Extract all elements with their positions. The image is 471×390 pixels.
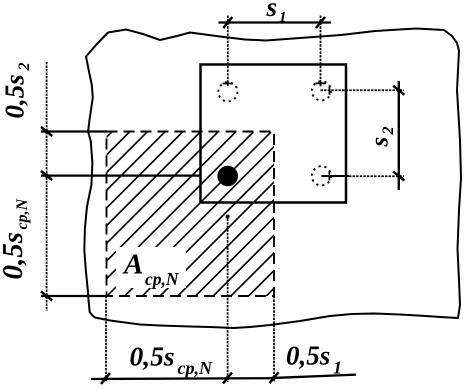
svg-text:2: 2 [16,63,33,72]
svg-text:0,5s: 0,5s [0,232,29,280]
svg-text:0,5s: 0,5s [286,341,330,371]
svg-text:0,5s: 0,5s [0,74,30,118]
svg-text:2: 2 [380,127,397,136]
svg-text:cp,N: cp,N [178,358,213,378]
svg-text:1: 1 [279,10,287,26]
svg-text:0,5s: 0,5s [130,341,175,372]
svg-text:A: A [122,249,143,281]
svg-text:1: 1 [333,358,342,378]
svg-text:cp,N: cp,N [14,197,31,229]
svg-text:cp,N: cp,N [145,269,180,289]
svg-text:s: s [266,0,278,22]
svg-text:s: s [367,137,394,148]
